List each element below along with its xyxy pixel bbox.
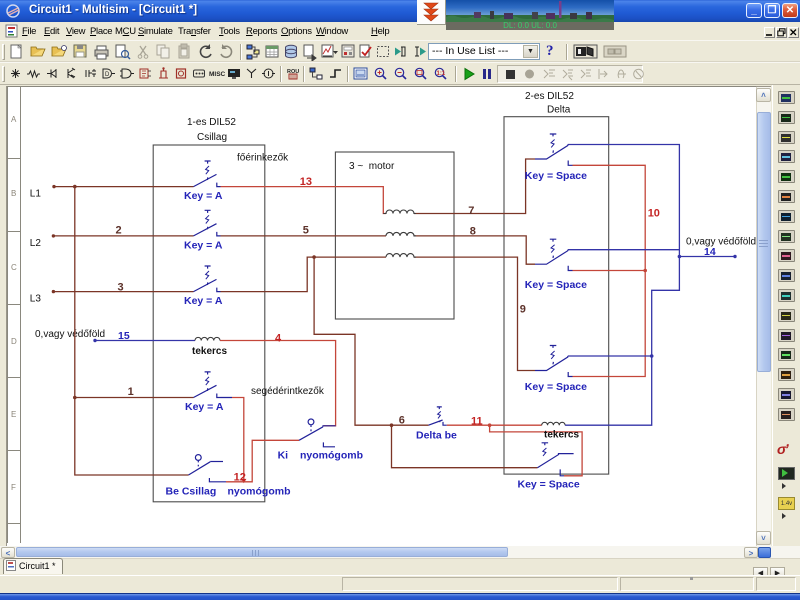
wire 12 to Ki bbox=[226, 440, 299, 482]
svg-text:L2: L2 bbox=[30, 238, 42, 249]
svg-text:2-es DIL52: 2-es DIL52 bbox=[525, 91, 574, 102]
label 14 bbox=[704, 246, 716, 258]
svg-text:Key = Space: Key = Space bbox=[518, 478, 580, 490]
svg-text:B: B bbox=[11, 189, 16, 198]
label 7 bbox=[468, 205, 474, 217]
wire 3b to motor bbox=[221, 257, 387, 292]
pushbutton Ki bbox=[299, 419, 336, 447]
svg-text:1:1: 1:1 bbox=[437, 71, 446, 77]
menu bar bbox=[0, 22, 800, 40]
svg-text:2: 2 bbox=[116, 224, 122, 236]
svg-text:9: 9 bbox=[520, 304, 526, 316]
switch J2 Key=A bbox=[194, 210, 221, 236]
switch J8 Key=Space (delta aux) bbox=[537, 443, 573, 476]
svg-text:3: 3 bbox=[118, 282, 124, 294]
label Be Csillag nyomogomb bbox=[166, 486, 291, 498]
svg-text:tekercs: tekercs bbox=[192, 346, 227, 357]
inductor tekercs 1 bbox=[195, 337, 220, 340]
svg-text:0,vagy védőföld: 0,vagy védőföld bbox=[35, 329, 105, 340]
junction node 6b bbox=[390, 423, 394, 427]
svg-text:L3: L3 bbox=[30, 294, 42, 305]
svg-text:MISC: MISC bbox=[209, 71, 226, 78]
motor winding 1 bbox=[383, 210, 416, 213]
label Key=Space 1 bbox=[525, 170, 587, 182]
label 3~ motor bbox=[349, 161, 395, 172]
contactor box K1 (1-es DIL52) bbox=[153, 145, 265, 502]
junction 14 bbox=[678, 255, 682, 259]
svg-text:Key = Space: Key = Space bbox=[525, 279, 587, 291]
node L1 bbox=[30, 185, 56, 200]
wire 11 bbox=[447, 424, 490, 426]
label Key=A 4 bbox=[185, 401, 224, 413]
svg-text:15: 15 bbox=[118, 330, 130, 342]
svg-text:főérinkezők: főérinkezők bbox=[237, 153, 289, 164]
svg-text:Delta be: Delta be bbox=[416, 430, 457, 442]
label 1-es DIL52 / Csillag bbox=[187, 117, 236, 143]
svg-text:3 ~ motor: 3 ~ motor bbox=[349, 161, 395, 172]
label 12 bbox=[234, 472, 246, 484]
svg-text:segédérintkezők: segédérintkezők bbox=[251, 386, 325, 397]
label Key=A 1 bbox=[184, 190, 223, 202]
label 5 bbox=[303, 224, 309, 236]
inductor tekercs 2 bbox=[542, 422, 565, 425]
contactor box K2 (2-es DIL52) bbox=[504, 117, 609, 474]
wire 0 net mid tap bbox=[568, 249, 680, 251]
pushbutton Be Csillag bbox=[189, 455, 227, 482]
label 13 bbox=[300, 176, 312, 188]
wire 9 bbox=[414, 257, 535, 370]
label 15 bbox=[118, 330, 130, 342]
label Key=A 3 bbox=[184, 295, 223, 307]
svg-text:Key = A: Key = A bbox=[185, 401, 224, 413]
wire J4 out bbox=[221, 397, 233, 399]
switch J5 Key=Space (K2 top) bbox=[535, 134, 573, 165]
svg-text:8: 8 bbox=[470, 226, 476, 238]
wire L2 row bbox=[53, 235, 193, 237]
wire 11 to coil bbox=[490, 424, 542, 426]
label 1 bbox=[128, 386, 134, 398]
wire 6 to Delta be bbox=[392, 424, 429, 426]
toolbar row 1 bbox=[0, 40, 800, 62]
wire 11 lower jog bbox=[490, 425, 582, 476]
svg-text:1: 1 bbox=[128, 386, 134, 398]
svg-text:13: 13 bbox=[300, 176, 312, 188]
label 6 bbox=[399, 415, 405, 427]
wire L1 row bbox=[54, 186, 194, 188]
wire 1 bbox=[75, 397, 194, 399]
svg-text:Key = A: Key = A bbox=[184, 239, 223, 251]
label Key=A 2 bbox=[184, 239, 223, 251]
svg-text:Key = Space: Key = Space bbox=[525, 381, 587, 393]
switch J7 Key=Space (K2 bottom) bbox=[535, 346, 573, 377]
junction 11 bbox=[488, 423, 492, 427]
wire L1 down branch bbox=[74, 187, 76, 398]
wire 7 bbox=[414, 159, 535, 214]
wire 10 bbox=[573, 165, 646, 376]
svg-text:nyomógomb: nyomógomb bbox=[300, 450, 363, 462]
junction 12 arrow bbox=[241, 479, 246, 483]
wire 8 bbox=[414, 236, 535, 264]
wire 10 mid tap bbox=[573, 270, 646, 272]
svg-text:4: 4 bbox=[275, 333, 282, 345]
svg-text:C: C bbox=[11, 263, 17, 272]
label 8 bbox=[470, 226, 476, 238]
svg-text:Delta: Delta bbox=[547, 105, 571, 116]
label foerinkezok bbox=[237, 153, 289, 164]
svg-text:tekercs: tekercs bbox=[544, 429, 579, 440]
svg-text:D: D bbox=[105, 72, 110, 78]
label tekercs 1 bbox=[192, 346, 227, 357]
label 10 bbox=[648, 208, 660, 220]
svg-text:nyomógomb: nyomógomb bbox=[228, 486, 291, 498]
motor winding 3 bbox=[386, 254, 416, 258]
label Key=Space 2 bbox=[525, 279, 587, 291]
sheet border band bbox=[7, 87, 756, 544]
svg-text:F: F bbox=[11, 483, 16, 492]
label 11 bbox=[471, 416, 483, 428]
label Key=Space 4 bbox=[518, 478, 580, 490]
wire 4 bbox=[220, 341, 336, 426]
wire 12 bbox=[232, 398, 244, 480]
switch J6 Key=Space (K2 mid) bbox=[535, 239, 573, 270]
svg-text:L1: L1 bbox=[30, 189, 42, 200]
junction node 6 tap bbox=[312, 255, 316, 259]
svg-text:A: A bbox=[11, 115, 17, 124]
junction L1 branch bbox=[73, 185, 77, 189]
wire 6 bbox=[314, 257, 391, 425]
node L3 bbox=[30, 290, 55, 305]
svg-text:6: 6 bbox=[399, 415, 405, 427]
svg-text:Be Csillag: Be Csillag bbox=[166, 486, 217, 498]
toolbar row 2 : components + zoom + simulate bbox=[0, 62, 800, 85]
label tekercs 2 bbox=[544, 429, 579, 440]
wire 14 bbox=[679, 256, 735, 258]
wire 6 to K2 lower switch bbox=[392, 425, 538, 468]
switch J4 Key=A aux bbox=[194, 372, 221, 398]
wire L3 row bbox=[53, 291, 193, 293]
svg-text:1-es DIL52: 1-es DIL52 bbox=[187, 117, 236, 128]
label 4 bbox=[275, 333, 282, 345]
switch J1 Key=A bbox=[194, 161, 221, 187]
svg-text:D: D bbox=[11, 337, 17, 346]
wire to Be Csillag bbox=[75, 398, 189, 476]
node 0 vagy vedofold (left) bbox=[35, 329, 105, 342]
wire 5 bbox=[221, 235, 387, 237]
motor box bbox=[335, 152, 454, 319]
label 3 bbox=[118, 282, 124, 294]
node 14 end bbox=[733, 255, 736, 258]
label 2 bbox=[116, 224, 122, 236]
wire 15 bbox=[95, 340, 195, 342]
svg-text:Key = A: Key = A bbox=[184, 295, 223, 307]
label Delta be bbox=[416, 430, 457, 442]
switch Delta be bbox=[429, 407, 447, 425]
label Ki nyomogomb bbox=[278, 450, 363, 462]
junction 0 net lower bbox=[650, 354, 654, 358]
wire 0 net top bbox=[565, 145, 679, 426]
node 0 vagy vedofold (right) bbox=[686, 237, 756, 248]
svg-text:E: E bbox=[11, 410, 16, 419]
svg-text:11: 11 bbox=[471, 416, 483, 428]
label Key=Space 3 bbox=[525, 381, 587, 393]
svg-text:Ki: Ki bbox=[278, 450, 289, 462]
switch J3 Key=A bbox=[194, 266, 221, 292]
label 9 bbox=[520, 304, 526, 316]
svg-text:Key = Space: Key = Space bbox=[525, 170, 587, 182]
junction node 1 bbox=[73, 396, 77, 400]
svg-text:Key = A: Key = A bbox=[184, 190, 223, 202]
wire 0 net lower tap bbox=[568, 355, 652, 357]
svg-text:5: 5 bbox=[303, 224, 309, 236]
label 2-es DIL52 / Delta bbox=[525, 91, 574, 116]
svg-text:10: 10 bbox=[648, 208, 660, 220]
svg-text:14: 14 bbox=[704, 246, 716, 258]
motor winding 2 bbox=[386, 232, 416, 235]
label segederintkezok bbox=[251, 386, 325, 397]
node L2 bbox=[30, 234, 55, 249]
svg-text:Csillag: Csillag bbox=[197, 132, 227, 143]
junction 10 bbox=[643, 269, 647, 273]
wire 13 bbox=[221, 187, 387, 214]
svg-text:0,vagy védőföld: 0,vagy védőföld bbox=[686, 237, 756, 248]
XP title bar bbox=[0, 0, 800, 22]
svg-text:7: 7 bbox=[468, 205, 474, 217]
